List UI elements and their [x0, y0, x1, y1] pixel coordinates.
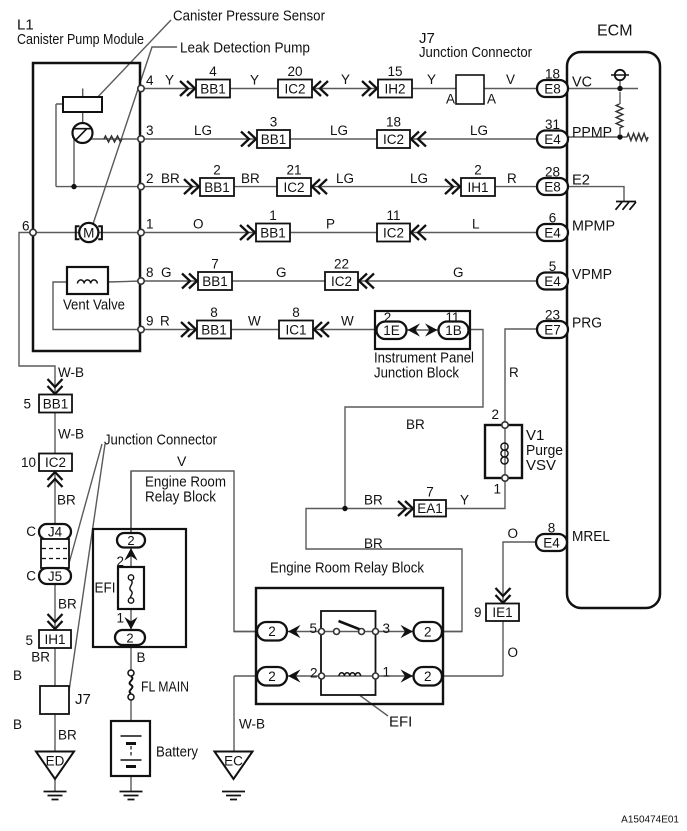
connector BB1 pin7	[198, 257, 232, 291]
connector BB1 pin3	[257, 115, 290, 149]
wire ED to ground	[54, 779, 56, 792]
svg-text:BB1: BB1	[200, 81, 226, 96]
svg-text:P: P	[326, 217, 335, 232]
wire module to BB1 (W-B)	[19, 233, 55, 396]
wire pin2 to E2 (BR/LG/R)	[56, 104, 537, 187]
svg-text:7: 7	[426, 485, 434, 500]
svg-text:MPMP: MPMP	[572, 218, 615, 235]
node pin 1	[138, 229, 144, 235]
svg-text:EC: EC	[224, 754, 243, 769]
junction dot inside module	[71, 184, 76, 189]
svg-text:E4: E4	[543, 535, 560, 550]
svg-text:Leak Detection Pump: Leak Detection Pump	[180, 40, 310, 57]
instrument panel junction block box	[375, 311, 470, 349]
svg-text:IC2: IC2	[284, 81, 305, 96]
svg-text:31: 31	[545, 117, 560, 132]
svg-text:5: 5	[549, 259, 557, 274]
svg-text:Y: Y	[427, 72, 436, 87]
arrow into IC2 row4	[313, 81, 328, 96]
FL MAIN fusible link	[128, 670, 134, 700]
relay contact 3	[373, 629, 379, 635]
leader junction connector to J7	[69, 444, 105, 691]
svg-text:PRG: PRG	[572, 315, 602, 332]
purge VSV box	[485, 425, 522, 478]
svg-text:Relay Block: Relay Block	[145, 489, 216, 506]
VSV pin 2 node	[502, 422, 508, 428]
svg-text:E7: E7	[544, 322, 561, 337]
wires canister pressure sensor	[56, 89, 83, 187]
svg-text:M: M	[83, 226, 94, 241]
svg-text:BB1: BB1	[260, 225, 286, 240]
svg-text:5: 5	[23, 397, 31, 412]
svg-text:BR: BR	[406, 417, 425, 432]
EFI fusible link box	[118, 567, 144, 609]
svg-text:2: 2	[268, 669, 276, 684]
wire pin9 to 1E (R/W)	[53, 282, 380, 330]
wire inside VSV	[504, 425, 506, 478]
svg-text:IC2: IC2	[383, 225, 404, 240]
wire pin1 to MPMP (O/P/L)	[33, 232, 537, 234]
relay pin 2 left-bottom	[257, 667, 287, 686]
svg-text:A: A	[446, 92, 455, 107]
internal resistor horizontal	[627, 134, 648, 141]
VSV pin 1 node	[502, 475, 508, 481]
wire to EC ground (W-B)	[233, 676, 235, 752]
svg-text:1B: 1B	[445, 323, 462, 338]
svg-text:7: 7	[211, 257, 219, 272]
svg-text:FL MAIN: FL MAIN	[141, 679, 189, 696]
junction connector J5	[39, 568, 71, 584]
arrow into IH2 row4	[362, 81, 377, 96]
arrow into BB1 row9	[181, 322, 196, 337]
connector IC1 pin8	[279, 305, 313, 339]
svg-text:21: 21	[286, 163, 301, 178]
svg-text:2: 2	[424, 624, 432, 639]
svg-text:Y: Y	[460, 493, 469, 508]
svg-text:J7: J7	[75, 691, 91, 708]
relay coil	[339, 673, 361, 676]
engine room relay block box	[256, 588, 443, 704]
wire pin3 to PPMP (LG)	[91, 138, 537, 140]
svg-text:R: R	[509, 365, 519, 380]
svg-text:3: 3	[383, 621, 391, 636]
arrow into IC2 row3	[411, 132, 426, 147]
wire V to relay block top	[130, 471, 132, 533]
svg-text:IE1: IE1	[492, 605, 512, 620]
svg-text:C: C	[26, 569, 36, 584]
junction dot VC	[617, 86, 622, 91]
leak detection pump motor M	[76, 223, 102, 242]
svg-text:E4: E4	[544, 274, 561, 289]
svg-text:EFI: EFI	[389, 714, 412, 731]
arrow into IC2 row1	[411, 225, 426, 240]
arrow into BB1 left	[48, 379, 63, 394]
wire MREL to IE1 (O)	[503, 542, 536, 604]
node pin 6	[30, 229, 36, 235]
wire IC2 to J4 (BR)	[54, 471, 56, 524]
svg-text:BR: BR	[241, 171, 260, 186]
svg-text:BB1: BB1	[201, 322, 227, 337]
ECM pin E8-18 VC	[537, 67, 568, 98]
connector BB1 pin4	[196, 64, 230, 98]
svg-text:22: 22	[334, 257, 349, 272]
svg-text:1: 1	[146, 217, 154, 232]
svg-text:8: 8	[146, 265, 154, 280]
wire EFI fuse to oval2	[130, 609, 132, 630]
svg-text:W: W	[248, 314, 261, 329]
svg-text:2: 2	[310, 666, 318, 681]
svg-text:2: 2	[213, 163, 221, 178]
svg-text:IC2: IC2	[283, 180, 304, 195]
svg-text:2: 2	[146, 171, 154, 186]
svg-text:LG: LG	[330, 123, 348, 138]
svg-text:G: G	[161, 265, 172, 280]
svg-text:W: W	[341, 314, 354, 329]
svg-text:G: G	[453, 265, 464, 280]
svg-text:Y: Y	[165, 73, 174, 88]
wire IE1 down (O)	[502, 621, 504, 676]
svg-text:B: B	[13, 717, 22, 732]
junction connector J7 box	[456, 75, 484, 104]
arrow into right-bottom 2	[401, 669, 414, 682]
junction connector J4	[39, 524, 71, 540]
svg-text:20: 20	[287, 64, 302, 79]
svg-text:G: G	[276, 265, 287, 280]
svg-text:5: 5	[309, 621, 317, 636]
svg-text:IC2: IC2	[383, 132, 404, 147]
relay contact inner A	[334, 629, 340, 635]
connector IC2 pin11	[377, 208, 410, 242]
junction dot BR	[342, 506, 347, 511]
svg-text:Battery: Battery	[156, 744, 198, 761]
svg-text:9: 9	[146, 314, 154, 329]
svg-text:Junction Connector: Junction Connector	[104, 432, 217, 449]
ECM pin E4-6 MPMP	[537, 211, 568, 242]
pressure sensor transducer circle	[73, 123, 93, 143]
svg-text:1: 1	[493, 482, 501, 497]
leader EFI relay	[360, 696, 388, 717]
svg-text:4: 4	[146, 73, 154, 88]
svg-text:Y: Y	[250, 73, 259, 88]
svg-text:IC2: IC2	[331, 274, 352, 289]
battery box	[111, 721, 150, 776]
svg-text:BR: BR	[161, 171, 180, 186]
svg-text:W-B: W-B	[58, 427, 84, 442]
connector IH1 pin5 left	[39, 630, 71, 648]
vent valve box	[67, 267, 108, 294]
junction dot PPMP	[617, 134, 622, 139]
wire E2 to internal ground	[568, 187, 624, 202]
svg-text:E2: E2	[572, 172, 590, 189]
ECM pin E4-5 VPMP	[537, 259, 568, 290]
svg-text:1: 1	[116, 611, 124, 626]
svg-text:EA1: EA1	[417, 501, 443, 516]
relay block pin 2 top	[117, 533, 145, 548]
arrow into BB1 row8	[182, 274, 197, 289]
wire FL MAIN to battery	[130, 700, 132, 721]
svg-text:15: 15	[387, 64, 402, 79]
svg-text:ECM: ECM	[597, 23, 633, 40]
svg-text:3: 3	[270, 115, 278, 130]
connector IC2 pin10 left	[39, 454, 72, 472]
svg-text:18: 18	[386, 115, 401, 130]
svg-text:W-B: W-B	[58, 365, 84, 380]
svg-text:2: 2	[268, 624, 276, 639]
svg-text:11: 11	[445, 310, 459, 325]
svg-text:Engine Room Relay Block: Engine Room Relay Block	[270, 560, 424, 577]
svg-text:Y: Y	[341, 72, 350, 87]
svg-text:23: 23	[545, 308, 560, 323]
leader canister pressure sensor	[94, 20, 171, 101]
wire PRG to VSV pin2 (R)	[505, 329, 537, 425]
arrow into IH1 left	[48, 614, 63, 629]
arrow into BB1 row2	[184, 179, 199, 194]
svg-text:11: 11	[386, 208, 400, 223]
arrow up into IC2 left	[48, 472, 63, 487]
J4-J5 dashed lines	[42, 549, 68, 559]
svg-text:10: 10	[21, 455, 36, 470]
svg-text:E4: E4	[544, 132, 561, 147]
svg-text:1: 1	[383, 665, 391, 680]
svg-text:5: 5	[25, 633, 33, 648]
connector BB1 pin2	[200, 163, 234, 197]
relay contact inner B	[359, 629, 365, 635]
arrow into left-bottom 2	[288, 669, 301, 682]
arrow into IC2 row8	[359, 274, 374, 289]
svg-text:28: 28	[545, 165, 560, 180]
svg-text:1: 1	[269, 208, 277, 223]
connector IH2 pin15	[378, 64, 412, 98]
relay contact 1	[373, 673, 379, 679]
relay switch blade	[339, 621, 362, 630]
connector IH1 pin2	[461, 163, 495, 197]
ground triangle ED	[36, 752, 74, 780]
svg-text:B: B	[137, 650, 146, 665]
svg-text:VC: VC	[572, 74, 592, 91]
svg-text:BR: BR	[31, 650, 50, 665]
svg-text:BR: BR	[57, 493, 76, 508]
arrow into BB1 row4	[180, 81, 195, 96]
svg-text:V: V	[506, 72, 515, 87]
ECM box	[567, 52, 660, 608]
connector EA1 pin7	[414, 485, 446, 517]
wire pin4 to VC (Y/V)	[141, 88, 537, 90]
wire J5 to IH1 (BR)	[54, 584, 56, 630]
svg-text:3: 3	[146, 123, 154, 138]
svg-text:2: 2	[127, 533, 134, 548]
svg-text:ED: ED	[46, 754, 65, 769]
svg-text:2: 2	[126, 630, 133, 645]
svg-text:V: V	[177, 453, 187, 469]
connector IC2 pin18	[377, 115, 410, 149]
svg-text:E8: E8	[544, 179, 561, 194]
relay pin 2 left-top	[257, 622, 287, 641]
relay pin 2 right-bottom	[414, 667, 443, 686]
wire 5V ref stem	[619, 80, 621, 89]
arrow into IE1	[496, 588, 511, 603]
wire BR branch to relay block	[306, 509, 462, 632]
svg-text:L: L	[472, 217, 480, 232]
svg-text:LG: LG	[336, 171, 354, 186]
svg-text:MREL: MREL	[572, 528, 610, 545]
svg-text:18: 18	[545, 67, 560, 82]
connector IC2 pin22	[325, 257, 358, 291]
resistor inside module	[104, 136, 122, 142]
svg-text:2: 2	[384, 310, 392, 325]
svg-text:R: R	[507, 171, 517, 186]
leader junction connector to J4/J5	[68, 444, 102, 567]
wire battery to ground	[130, 721, 132, 792]
wire relay coil row	[234, 675, 503, 677]
EFI fusible link symbol	[128, 575, 133, 603]
wire between 1E and 1B	[406, 329, 439, 331]
svg-text:LG: LG	[194, 123, 212, 138]
svg-text:IC1: IC1	[285, 322, 306, 337]
VSV coil	[501, 443, 508, 464]
wire IH1 to J7 (B)	[54, 648, 56, 686]
ECM pin E7-23 PRG	[537, 308, 568, 339]
svg-text:8: 8	[210, 305, 218, 320]
arrow into IC2 row2	[312, 179, 327, 194]
svg-text:O: O	[508, 645, 519, 660]
5V reference symbol	[611, 70, 629, 80]
arrow into left-top 2	[288, 625, 301, 638]
connector 1E pin2	[377, 310, 407, 339]
node pin 3	[138, 136, 144, 142]
svg-text:9: 9	[474, 605, 482, 620]
connector IE1 pin9	[486, 604, 519, 622]
arrow into right-top 2	[401, 625, 414, 638]
svg-text:BB1: BB1	[261, 132, 287, 147]
ECM pin E4-31 PPMP	[537, 117, 568, 148]
wire PPMP internal	[568, 136, 627, 138]
node pin 2	[138, 183, 144, 189]
svg-text:VPMP: VPMP	[572, 266, 612, 283]
svg-text:PPMP: PPMP	[572, 124, 612, 141]
connector BB1 pin8	[197, 305, 231, 339]
svg-text:8: 8	[548, 521, 556, 536]
svg-text:8: 8	[292, 305, 300, 320]
svg-text:Junction Block: Junction Block	[374, 365, 459, 382]
connector 1B pin11	[439, 310, 469, 339]
svg-text:1E: 1E	[383, 323, 400, 338]
svg-text:LG: LG	[470, 123, 488, 138]
arrow into IC1 row9	[314, 322, 329, 337]
svg-text:BR: BR	[364, 536, 383, 551]
svg-text:2: 2	[424, 669, 432, 684]
svg-text:VSV: VSV	[526, 457, 556, 474]
svg-text:EFI: EFI	[95, 580, 116, 597]
canister pressure sensor body	[63, 97, 102, 112]
relay contact 5	[319, 629, 325, 635]
arrow into 1B	[425, 323, 438, 336]
svg-text:IH1: IH1	[467, 180, 488, 195]
relay pin 2 right-top	[414, 622, 443, 641]
svg-text:2: 2	[491, 407, 499, 422]
arrow up into pin2	[124, 548, 137, 561]
svg-text:6: 6	[549, 211, 557, 226]
svg-text:J5: J5	[48, 569, 62, 584]
node pin 9	[138, 326, 144, 332]
relay contact 2	[319, 673, 325, 679]
internal ground E2	[616, 202, 637, 210]
svg-text:4: 4	[209, 64, 217, 79]
svg-text:IH1: IH1	[44, 632, 65, 647]
node pin 8	[138, 278, 144, 284]
node pin 4	[138, 85, 144, 91]
canister pump module box	[33, 63, 140, 351]
svg-text:IH2: IH2	[384, 81, 405, 96]
engine room relay block (EFI) box	[93, 529, 186, 647]
junction connector J7 bottom box	[40, 686, 69, 714]
svg-text:W-B: W-B	[239, 717, 265, 732]
svg-text:O: O	[508, 526, 519, 541]
svg-text:R: R	[160, 314, 170, 329]
connector BB1 pin5 left	[39, 395, 72, 413]
wire 1B to junction (BR)	[345, 330, 483, 509]
svg-text:J4: J4	[48, 525, 63, 540]
wire VSV pin1 to EA1 (Y/BR)	[345, 478, 505, 509]
svg-text:C: C	[26, 524, 36, 539]
svg-text:IC2: IC2	[45, 455, 66, 470]
relay block pin 2 bottom	[115, 630, 145, 645]
connector IC2 pin21	[277, 163, 311, 197]
wire V branch relay to relay block	[131, 471, 257, 632]
vent valve coil	[78, 280, 98, 284]
wire oval2 to FL MAIN (B)	[130, 645, 132, 673]
svg-text:BB1: BB1	[43, 396, 69, 411]
connector BB1 pin1	[256, 208, 290, 242]
svg-text:Canister Pump Module: Canister Pump Module	[17, 31, 144, 48]
ground ED	[44, 792, 67, 800]
arrow down into pin2 bottom	[124, 617, 137, 630]
svg-text:BB1: BB1	[204, 180, 230, 195]
relay inner box	[321, 611, 376, 695]
svg-text:E4: E4	[544, 225, 561, 240]
svg-text:Junction Connector: Junction Connector	[419, 44, 532, 61]
arrow into BB1 row3	[241, 132, 256, 147]
svg-text:A: A	[487, 92, 496, 107]
svg-text:B: B	[13, 668, 22, 683]
arrow into 1E	[408, 323, 421, 336]
ECM pin E4-8 MREL	[536, 521, 567, 552]
svg-text:6: 6	[22, 219, 30, 234]
wire oval2 to EFI fuse	[130, 547, 132, 567]
arrow into EA1	[398, 501, 413, 516]
leader leak detection pump	[93, 47, 177, 224]
svg-text:Canister Pressure Sensor: Canister Pressure Sensor	[173, 8, 325, 25]
wire VC internal	[568, 88, 638, 90]
wire BB1 to IC2 (W-B)	[54, 413, 56, 455]
connector IC2 pin20	[278, 64, 312, 98]
battery cells	[121, 736, 142, 760]
wire J7 to ED (BR)	[54, 714, 56, 752]
svg-text:A150474E01: A150474E01	[621, 815, 679, 826]
J4-J5 connector body	[41, 539, 69, 568]
arrow into IH1 row2	[445, 179, 460, 194]
svg-text:O: O	[193, 217, 204, 232]
svg-text:LG: LG	[410, 171, 428, 186]
ground battery	[120, 792, 143, 800]
ECM pin E8-28 E2	[537, 165, 568, 196]
svg-text:Vent Valve: Vent Valve	[63, 297, 125, 314]
ground EC	[222, 792, 245, 800]
svg-text:BR: BR	[58, 597, 77, 612]
ground triangle EC	[215, 752, 253, 780]
internal resistor vertical	[616, 104, 623, 128]
svg-text:BB1: BB1	[202, 274, 228, 289]
wire resistor leads	[619, 92, 621, 134]
